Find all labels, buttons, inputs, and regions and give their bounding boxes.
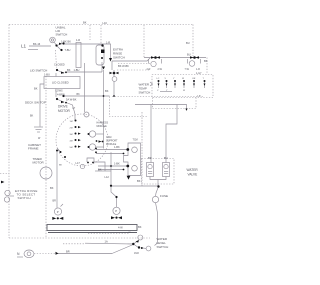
svg-text:SWITCH: SWITCH — [56, 33, 68, 37]
svg-text:4M: 4M — [70, 141, 73, 143]
svg-text:BK W-BK: BK W-BK — [118, 64, 129, 68]
svg-text:BU: BU — [187, 53, 191, 57]
svg-text:SWITCH: SWITCH — [113, 56, 125, 60]
svg-text:2-W: 2-W — [158, 68, 163, 71]
svg-text:WATER: WATER — [187, 168, 199, 172]
svg-text:P: P — [57, 210, 59, 214]
svg-text:1-R: 1-R — [106, 41, 110, 45]
svg-text:DRIVE: DRIVE — [58, 105, 68, 109]
svg-text:BK: BK — [204, 59, 208, 63]
svg-text:2-R: 2-R — [147, 68, 151, 71]
svg-text:L10: L10 — [103, 21, 108, 25]
svg-text:L17: L17 — [76, 161, 81, 165]
svg-text:1-BK: 1-BK — [114, 162, 120, 166]
svg-text:BR: BR — [148, 156, 152, 160]
svg-text:3M: 3M — [70, 134, 73, 136]
svg-text:BK: BK — [30, 115, 34, 118]
svg-text:BU: BU — [164, 156, 168, 160]
svg-text:MODULE: MODULE — [97, 125, 108, 128]
svg-text:BK: BK — [67, 68, 71, 72]
svg-text:BK: BK — [50, 186, 54, 190]
svg-text:1-BU: 1-BU — [44, 73, 50, 77]
svg-text:LC: LC — [157, 78, 160, 80]
svg-text:L1: L1 — [21, 44, 27, 49]
svg-text:FRAME: FRAME — [28, 147, 39, 151]
svg-text:BU: BU — [186, 41, 190, 45]
svg-text:BK: BK — [138, 225, 142, 229]
svg-text:1-BK BK: 1-BK BK — [61, 40, 71, 44]
svg-text:SWITCH: SWITCH — [18, 196, 31, 200]
svg-text:MOTOR: MOTOR — [33, 161, 45, 165]
svg-text:LID SWITCH: LID SWITCH — [30, 69, 47, 73]
svg-text:P: P — [115, 209, 117, 213]
svg-text:1A: 1A — [105, 239, 108, 243]
svg-text:FUSE: FUSE — [160, 194, 168, 198]
svg-text:LOWS: LOWS — [56, 90, 63, 93]
svg-text:BK: BK — [77, 93, 81, 96]
svg-text:BR: BR — [53, 200, 57, 203]
svg-text:4-W: 4-W — [118, 226, 123, 230]
svg-text:VALVE: VALVE — [188, 173, 198, 177]
svg-text:MOTOR: MOTOR — [58, 109, 71, 113]
svg-text:SWITCH: SWITCH — [157, 245, 169, 249]
svg-text:1-GY: 1-GY — [196, 72, 202, 75]
svg-text:BK: BK — [83, 21, 87, 25]
svg-text:1-R: 1-R — [196, 68, 200, 71]
svg-text:TCM: TCM — [133, 139, 138, 142]
svg-text:1M: 1M — [70, 121, 73, 123]
svg-text:SWITCH: SWITCH — [139, 91, 151, 95]
svg-text:DECK SW TOP: DECK SW TOP — [25, 101, 46, 105]
svg-text:BK: BK — [98, 168, 102, 172]
svg-text:BK: BK — [34, 87, 38, 91]
svg-text:1-BK: 1-BK — [114, 145, 120, 149]
svg-text:L12: L12 — [105, 175, 110, 179]
svg-text:7-W: 7-W — [185, 68, 190, 71]
svg-text:5M: 5M — [70, 147, 73, 149]
svg-text:1-R: 1-R — [197, 96, 201, 98]
svg-text:2M: 2M — [70, 128, 73, 130]
svg-text:LID CLOSED: LID CLOSED — [52, 81, 69, 85]
svg-text:1-BU: 1-BU — [74, 68, 80, 72]
svg-text:1-R: 1-R — [76, 38, 80, 42]
svg-text:CLOSED: CLOSED — [54, 63, 65, 67]
svg-text:BR: BR — [66, 249, 70, 253]
svg-text:BK: BK — [105, 89, 109, 93]
svg-text:4-BRN: 4-BRN — [57, 93, 65, 97]
svg-text:BK: BK — [137, 179, 141, 183]
svg-text:BK-16: BK-16 — [33, 42, 41, 46]
svg-text:OR: OR — [192, 78, 196, 80]
svg-text:1M3: 1M3 — [134, 252, 139, 255]
svg-text:T-BU: T-BU — [65, 48, 71, 52]
svg-text:5A W-BK: 5A W-BK — [66, 98, 77, 102]
